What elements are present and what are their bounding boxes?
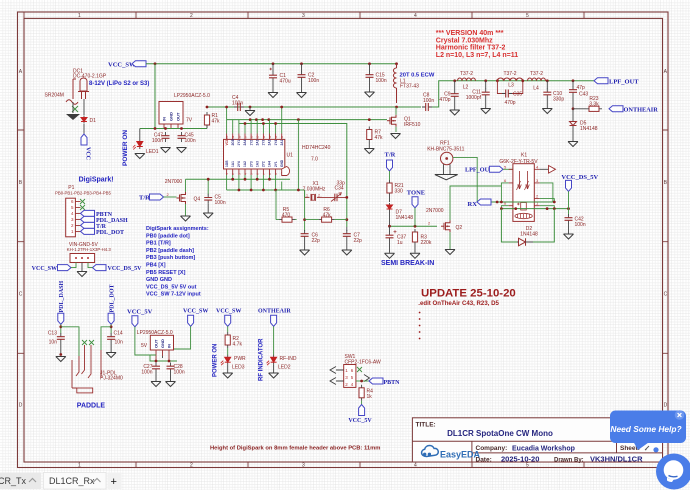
svg-text:4: 4 <box>414 463 417 469</box>
svg-text:PDL_DASH: PDL_DASH <box>59 280 65 312</box>
svg-text:5: 5 <box>526 13 529 19</box>
svg-text:K1: K1 <box>521 153 527 159</box>
wire <box>389 171 391 180</box>
wire <box>135 327 150 355</box>
no-connect X paddle <box>82 340 87 345</box>
svg-text:100n: 100n <box>174 370 185 376</box>
svg-text:PB1 [T/R]: PB1 [T/R] <box>146 241 171 247</box>
svg-text:IRF510: IRF510 <box>404 122 421 128</box>
right open arrow <box>364 375 370 382</box>
title block frame <box>412 418 662 462</box>
junction <box>244 122 247 125</box>
no-connect X sw <box>357 367 362 372</box>
svg-text:VCC: VCC <box>85 147 91 160</box>
svg-text:LED2: LED2 <box>278 365 291 371</box>
junction <box>154 62 157 65</box>
header P1 body <box>66 198 76 237</box>
svg-text:330: 330 <box>395 189 404 195</box>
no-connect X pin6 <box>80 199 85 204</box>
relay pin stubs <box>509 169 540 205</box>
capacitor C1 <box>272 64 274 72</box>
ground <box>450 110 460 115</box>
svg-text:100n: 100n <box>215 200 226 206</box>
wire pin1 pin2 <box>540 199 555 209</box>
svg-text:PWR: PWR <box>234 356 246 362</box>
junction <box>496 79 499 82</box>
wire to paddle tip <box>61 327 79 356</box>
svg-text:1Y1: 1Y1 <box>237 140 241 146</box>
svg-text:22p: 22p <box>354 238 363 244</box>
ground <box>391 134 401 139</box>
svg-text:RF INDICATOR: RF INDICATOR <box>259 338 265 381</box>
wire <box>88 263 93 268</box>
junction <box>300 62 303 65</box>
ground <box>166 382 176 387</box>
svg-text:2GB: 2GB <box>231 138 235 145</box>
need some help bubble <box>610 410 686 450</box>
svg-text:LP2950ACZ-5.0: LP2950ACZ-5.0 <box>174 93 210 99</box>
no-connect X <box>72 106 78 112</box>
svg-text:15: 15 <box>256 135 260 139</box>
ground reg gnd <box>162 356 164 358</box>
svg-text:100n: 100n <box>141 370 152 376</box>
svg-text:DigiSpark!: DigiSpark! <box>79 177 114 184</box>
wire right of IC <box>297 120 299 190</box>
ground <box>342 250 352 255</box>
wire pin6 to Q2 <box>501 183 508 202</box>
ground <box>106 353 116 358</box>
capacitor C13 <box>57 333 65 343</box>
svg-text:VCC_5V: VCC_5V <box>348 418 372 424</box>
svg-text:GND: GND <box>160 339 165 348</box>
IC U1 pin stubs bottom <box>227 169 276 175</box>
capacitor C42 <box>565 214 573 224</box>
svg-text:330p: 330p <box>553 97 564 103</box>
svg-text:SR204M: SR204M <box>45 93 64 99</box>
svg-text:VK3HN/DL1CR: VK3HN/DL1CR <box>590 455 643 464</box>
svg-text:EasyEDA: EasyEDA <box>440 450 481 460</box>
wire pin3 down <box>540 183 553 202</box>
svg-text:TITLE:: TITLE: <box>416 422 436 429</box>
svg-text:470p: 470p <box>439 97 450 103</box>
svg-text:IN: IN <box>167 344 172 348</box>
capacitor C35 trap <box>497 81 522 94</box>
junction <box>345 196 348 199</box>
LED2 RF-IND <box>267 355 277 366</box>
svg-text:ONTHEAIR: ONTHEAIR <box>258 309 291 315</box>
wire bus B to crystal <box>304 190 306 231</box>
svg-text:2: 2 <box>190 463 193 469</box>
resistor R3 <box>412 229 417 245</box>
svg-text:8-12V (LiPo S2 or S3): 8-12V (LiPo S2 or S3) <box>89 81 149 87</box>
wire BNC out <box>453 157 477 202</box>
svg-text:Company:: Company: <box>476 445 508 452</box>
svg-text:DC-470-2.1GP: DC-470-2.1GP <box>73 74 107 80</box>
svg-text:POWER ON: POWER ON <box>213 344 219 377</box>
capacitor C37 polarized <box>389 226 391 232</box>
wire gate line <box>227 119 387 121</box>
svg-text:2Y4: 2Y4 <box>237 161 241 167</box>
svg-text:100n: 100n <box>575 222 586 228</box>
svg-text:1A4: 1A4 <box>268 161 272 167</box>
junction <box>546 79 549 82</box>
relay pin numbers <box>504 164 539 205</box>
svg-text:18: 18 <box>237 135 241 139</box>
wire IC bottom bus B <box>227 189 305 191</box>
svg-text:C: C <box>19 292 23 298</box>
connector J2 body <box>70 254 95 263</box>
svg-text:LPF_OUT: LPF_OUT <box>609 78 639 85</box>
svg-text:Crystal 7.030Mhz: Crystal 7.030Mhz <box>436 37 493 44</box>
wire RX row <box>477 201 554 203</box>
wire DS rail <box>501 208 568 210</box>
capacitor C15 <box>369 64 371 72</box>
capacitor C11 <box>485 81 487 89</box>
svg-text:GND: GND <box>280 159 284 167</box>
svg-text:2: 2 <box>318 193 320 197</box>
diode D5 <box>572 109 574 120</box>
svg-text:4.7k: 4.7k <box>233 342 243 348</box>
ground <box>481 109 491 114</box>
wire to regulator <box>154 64 156 129</box>
svg-text:VCC_SW: VCC_SW <box>183 309 208 315</box>
ruler numbers bottom <box>78 463 529 469</box>
svg-text:100n: 100n <box>152 138 163 144</box>
svg-text:20: 20 <box>225 135 229 139</box>
resistor R2 <box>225 332 230 348</box>
svg-text:2Y2: 2Y2 <box>262 161 266 167</box>
ruler numbers top <box>78 13 529 19</box>
svg-text:KH-1.27FH-1X3P-H4.3: KH-1.27FH-1X3P-H4.3 <box>67 247 112 252</box>
svg-text:L4: L4 <box>533 85 539 91</box>
svg-text:1N4148: 1N4148 <box>520 232 538 238</box>
svg-text:1Y3: 1Y3 <box>262 140 266 146</box>
svg-text:HD74HC240: HD74HC240 <box>302 145 331 151</box>
EasyEDA logo <box>422 445 481 459</box>
svg-text:*** VERSION 40m ***: *** VERSION 40m *** <box>436 30 504 37</box>
junction <box>272 62 275 65</box>
wire Q4 drain <box>185 179 187 192</box>
svg-text:1: 1 <box>78 463 81 469</box>
svg-text:2N7000: 2N7000 <box>165 179 183 185</box>
net flag ONTHEAIR right <box>609 106 623 112</box>
wire to paddle ring <box>101 327 111 350</box>
capacitor C7 <box>346 227 348 231</box>
capacitor C10 <box>546 81 548 89</box>
svg-text:14: 14 <box>262 135 266 139</box>
svg-text:U1: U1 <box>287 153 294 159</box>
svg-text:POWER ON: POWER ON <box>122 130 129 166</box>
ground <box>135 154 145 159</box>
ground <box>269 373 279 378</box>
svg-text:TONE: TONE <box>407 189 425 196</box>
wire <box>227 326 229 332</box>
sheet pencil icon <box>645 446 649 450</box>
svg-text:DigiSpark assignments:: DigiSpark assignments: <box>146 226 209 232</box>
svg-text:VCC_DS_5V: VCC_DS_5V <box>561 174 598 181</box>
svg-text:T37-2: T37-2 <box>460 71 473 77</box>
svg-text:5V: 5V <box>141 343 148 349</box>
svg-text:PDL_DOT: PDL_DOT <box>109 284 115 312</box>
svg-text:FT37-43: FT37-43 <box>400 84 419 90</box>
ground <box>568 142 578 147</box>
no-connect X pin5 <box>80 205 85 210</box>
svg-text:16: 16 <box>250 135 254 139</box>
svg-text:ONTHEAIR: ONTHEAIR <box>624 106 659 113</box>
wire <box>304 190 306 197</box>
top ruler ticks <box>24 12 584 18</box>
capacitor C43 <box>572 81 574 87</box>
junction <box>388 225 391 228</box>
capacitor C9 <box>454 81 456 90</box>
resistor R23 <box>573 108 586 110</box>
inductor L1 vertical <box>393 64 396 103</box>
ground <box>223 373 233 378</box>
svg-text:Q2: Q2 <box>456 225 463 231</box>
svg-text:LED3: LED3 <box>232 365 245 371</box>
svg-text:100n: 100n <box>423 98 434 104</box>
ground <box>445 250 455 255</box>
svg-text:PJ-324M0: PJ-324M0 <box>100 376 123 382</box>
junction <box>249 118 252 121</box>
svg-text:IN: IN <box>162 117 167 121</box>
wire VCC_SW rail <box>146 63 398 65</box>
wire <box>72 102 74 113</box>
ground <box>385 253 395 258</box>
junction <box>496 201 499 204</box>
svg-text:Eucadia Workshop: Eucadia Workshop <box>512 446 575 453</box>
svg-text:1k: 1k <box>367 394 373 400</box>
svg-text:C35: C35 <box>513 92 522 98</box>
svg-text:VCC: VCC <box>225 138 229 145</box>
wire Q2 source to ground <box>449 232 451 249</box>
svg-text:100n: 100n <box>185 138 196 144</box>
svg-text:4: 4 <box>414 13 417 19</box>
svg-text:DL1CR SpotaOne CW Mono: DL1CR SpotaOne CW Mono <box>447 429 553 438</box>
svg-text:DL1CR_Rx: DL1CR_Rx <box>49 476 95 486</box>
svg-text:VCC_SW: VCC_SW <box>108 61 136 68</box>
U1 pin numbers <box>225 135 284 175</box>
left open arrows <box>330 367 336 385</box>
ground <box>203 213 213 218</box>
ground <box>564 234 574 239</box>
transistor Q1 IRF510 <box>387 115 396 127</box>
wire pin8 <box>501 206 508 209</box>
svg-text:Harmonic filter T37-2: Harmonic filter T37-2 <box>436 45 506 52</box>
svg-text:2A1: 2A1 <box>280 139 284 145</box>
svg-text:10n: 10n <box>115 340 124 346</box>
svg-text:Drawn By:: Drawn By: <box>554 457 584 463</box>
connector RF1 BNC <box>441 152 453 174</box>
ground wide <box>435 175 458 180</box>
svg-text:100n: 100n <box>308 78 319 84</box>
svg-text:1N4148: 1N4148 <box>580 126 598 132</box>
svg-text:1A3: 1A3 <box>255 161 259 167</box>
svg-text:220k: 220k <box>421 240 432 246</box>
svg-text:OUT: OUT <box>154 339 159 348</box>
wire tone row <box>390 225 438 227</box>
ground <box>364 149 374 154</box>
svg-text:PADDLE: PADDLE <box>77 403 106 410</box>
svg-text:3.3k: 3.3k <box>589 102 599 108</box>
capacitor C45 <box>178 132 186 142</box>
svg-text:GND: GND <box>169 112 174 121</box>
svg-text:OUT: OUT <box>176 112 181 121</box>
junction <box>572 107 575 110</box>
inductor L4 <box>528 78 546 81</box>
svg-text:C34: C34 <box>335 186 344 192</box>
ground <box>410 253 420 258</box>
row letters right <box>664 69 668 409</box>
svg-text:12: 12 <box>274 135 278 139</box>
wire <box>71 263 76 268</box>
wire <box>83 124 85 134</box>
svg-text:1000pf: 1000pf <box>466 95 482 101</box>
wire <box>273 326 275 355</box>
switch SW1 body <box>344 365 356 388</box>
relay K1 body <box>513 164 534 222</box>
svg-text:1N4148: 1N4148 <box>396 215 414 221</box>
svg-text:2: 2 <box>190 13 193 19</box>
ground <box>56 357 66 362</box>
svg-text:22p: 22p <box>312 238 321 244</box>
junction <box>59 353 62 356</box>
wire 5V row <box>140 128 207 130</box>
ground <box>177 148 187 153</box>
ground <box>81 263 83 272</box>
net flag VCC_DS_5V right <box>93 265 107 271</box>
net flag PBTN <box>81 210 95 216</box>
wire IC bottom bus A <box>186 178 291 180</box>
note dots <box>419 312 421 340</box>
switch SR204M <box>66 100 78 105</box>
svg-text:470u: 470u <box>280 79 291 85</box>
capacitor C8 <box>422 103 432 111</box>
svg-text:D: D <box>664 403 668 409</box>
ground <box>161 148 171 153</box>
svg-text:D: D <box>19 403 23 409</box>
svg-text:2Y1: 2Y1 <box>274 161 278 167</box>
wire <box>568 191 570 214</box>
antenna arrow pin4 <box>540 168 549 170</box>
junction <box>572 79 575 82</box>
wire <box>227 348 229 355</box>
svg-text:VCC_DS_5V 5V out: VCC_DS_5V 5V out <box>146 284 197 290</box>
svg-text:PB2 [paddle dash]: PB2 [paddle dash] <box>146 248 194 254</box>
wire feedback line <box>239 124 347 228</box>
svg-text:VCC_SW: VCC_SW <box>216 309 241 315</box>
svg-text:11: 11 <box>280 135 284 138</box>
capacitor C2 <box>301 64 303 72</box>
svg-text:1: 1 <box>78 13 81 19</box>
sheet blue dot <box>653 447 658 452</box>
junction <box>484 79 487 82</box>
D2 loop wires <box>501 209 554 242</box>
svg-text:7.0: 7.0 <box>311 157 318 163</box>
svg-text:Q4: Q4 <box>194 197 201 203</box>
tab bar <box>0 473 122 490</box>
wire to LPF <box>432 81 594 107</box>
svg-text:1GB: 1GB <box>225 160 229 167</box>
svg-text:1A1: 1A1 <box>231 161 235 167</box>
connector DC1 barrel jack <box>73 78 89 99</box>
U1 gnd notch <box>282 167 290 176</box>
svg-text:3: 3 <box>302 463 305 469</box>
resistor R1 <box>204 112 209 128</box>
ground <box>181 216 191 221</box>
svg-text:Height of DigiSpark on 8mm fem: Height of DigiSpark on 8mm female header… <box>210 445 380 451</box>
wire drain line <box>207 106 421 108</box>
capacitor C14 <box>107 333 115 343</box>
svg-text:GND GND: GND GND <box>146 277 172 283</box>
svg-text:47k: 47k <box>375 135 384 141</box>
svg-text:C: C <box>664 292 668 298</box>
inductor L3 <box>497 78 522 81</box>
svg-text:470p: 470p <box>504 100 515 106</box>
net flag PBTN sw <box>369 378 383 384</box>
net flag LPF_OUT top <box>594 78 608 84</box>
wire IC top drops <box>227 107 282 134</box>
ground <box>66 114 80 120</box>
svg-text:1Y2: 1Y2 <box>249 140 253 146</box>
resistor R4 <box>359 385 364 401</box>
svg-text:T/R: T/R <box>139 195 150 202</box>
wire caps row <box>150 355 177 361</box>
ground <box>542 109 552 114</box>
inductor L2 <box>458 78 476 81</box>
svg-text:PB4 [X]: PB4 [X] <box>146 263 166 269</box>
net flag VCC_5V sw <box>361 401 363 405</box>
svg-text:D1: D1 <box>90 118 97 124</box>
junction <box>164 127 167 130</box>
svg-text:7.030MHz: 7.030MHz <box>303 187 326 193</box>
bottom ruler ticks <box>136 462 584 468</box>
svg-text:L2 n=10, L3 n=7, L4 n=11: L2 n=10, L3 n=7, L4 n=11 <box>436 52 518 59</box>
svg-text:RX: RX <box>468 201 478 208</box>
svg-text:LED1: LED1 <box>146 149 159 155</box>
svg-text:1u: 1u <box>397 240 403 246</box>
svg-text:C14: C14 <box>114 331 123 337</box>
svg-text:L3: L3 <box>508 82 514 88</box>
ground <box>300 250 310 255</box>
svg-text:KH-BNC75-3511: KH-BNC75-3511 <box>427 147 464 153</box>
svg-text:10n: 10n <box>49 340 58 346</box>
chat launcher <box>656 454 690 490</box>
capacitor C28 <box>167 363 175 373</box>
svg-text:47k: 47k <box>212 119 221 125</box>
svg-text:1A2: 1A2 <box>243 161 247 167</box>
capacitor C47 <box>162 132 170 142</box>
LED3 PWR <box>221 355 231 366</box>
resistor R21 <box>387 180 392 196</box>
svg-text:3: 3 <box>302 13 305 19</box>
svg-text:2Y3: 2Y3 <box>249 161 253 167</box>
net flag T/R <box>81 222 95 228</box>
ground <box>268 93 278 98</box>
wire <box>414 208 416 226</box>
wire <box>60 324 62 333</box>
junction <box>521 79 524 82</box>
svg-text:Need Some Help?: Need Some Help? <box>610 424 681 434</box>
wire <box>110 324 112 333</box>
svg-text:13: 13 <box>268 135 272 139</box>
capacitor C6 <box>301 230 309 240</box>
svg-text:100n: 100n <box>376 78 387 84</box>
svg-text:PDL_DOT: PDL_DOT <box>96 230 124 236</box>
svg-text:.edit OnTheAir C43, R23, D5: .edit OnTheAir C43, R23, D5 <box>418 300 499 307</box>
svg-text:UPDATE 25-10-20: UPDATE 25-10-20 <box>421 288 516 300</box>
svg-text:RF-IND: RF-IND <box>280 356 297 362</box>
